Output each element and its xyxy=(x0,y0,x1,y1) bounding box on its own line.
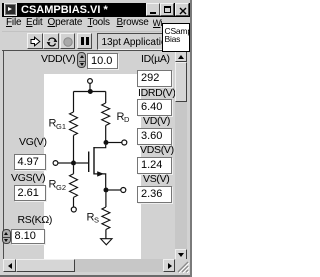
resistor RG1 xyxy=(70,112,78,135)
wire drain node to VD terminal xyxy=(109,142,122,144)
VI icon box (top-right) xyxy=(162,23,190,52)
wire left branch upper xyxy=(73,92,75,113)
wire RG2 to bottom terminal xyxy=(73,197,75,207)
wire top rail xyxy=(74,91,106,93)
resistor RS xyxy=(102,207,110,230)
ground xyxy=(101,239,112,245)
transistor Q1 channel xyxy=(93,147,95,175)
title bar xyxy=(2,3,190,17)
toolbar buttons xyxy=(27,33,43,49)
resistor RD xyxy=(102,103,110,126)
node drain junction xyxy=(104,140,109,145)
value label RG1 xyxy=(49,118,67,132)
panel sunken left edge xyxy=(3,50,5,259)
ground terminal circle (RG2 bottom) xyxy=(71,207,76,212)
value label RD xyxy=(117,111,131,124)
window outer dark edges xyxy=(0,275,192,277)
resistor RG2 xyxy=(70,174,78,198)
title icon xyxy=(4,3,17,16)
white schematic area xyxy=(44,74,141,259)
VDD spinner xyxy=(77,52,86,68)
svg-text:G1: G1 xyxy=(56,122,66,131)
corner resize grip xyxy=(175,259,189,273)
wire RG1 to gate node xyxy=(73,135,75,161)
node source junction xyxy=(104,188,109,193)
svg-text:D: D xyxy=(124,115,130,124)
font ring xyxy=(97,33,163,50)
VDD numeric box xyxy=(87,53,118,69)
value label RS xyxy=(87,212,100,225)
wire gate xyxy=(76,162,88,164)
wire VG terminal to gate node xyxy=(58,162,74,164)
svg-text:S: S xyxy=(94,216,99,225)
left column xyxy=(19,136,47,148)
transistor Q1 drain lead xyxy=(94,145,106,148)
menu bar bottom groove xyxy=(2,31,189,32)
transistor Q1 source lead xyxy=(94,174,106,188)
toolbar separator xyxy=(2,50,188,51)
svg-text:G2: G2 xyxy=(56,183,66,192)
right column labels/indicators xyxy=(141,53,170,65)
vertical scrollbar xyxy=(175,51,187,260)
wire left branch lower xyxy=(73,166,75,174)
circuit schematic SVG xyxy=(0,0,192,277)
menu bar xyxy=(6,17,21,29)
node VDD junction xyxy=(88,89,93,94)
wire RD to drain node xyxy=(105,126,107,143)
transistor Q1 gate plate xyxy=(88,152,90,173)
wire VDD terminal to rail xyxy=(89,84,91,91)
horizontal scrollbar xyxy=(3,259,175,272)
VDD(V) label xyxy=(41,53,75,65)
VS terminal circle xyxy=(121,188,126,193)
VD terminal circle xyxy=(122,140,127,145)
wire right branch upper xyxy=(105,92,107,104)
caption buttons xyxy=(146,3,160,16)
wire source node to RS xyxy=(105,193,107,208)
transistor Q1 source arrow xyxy=(97,171,104,176)
wire RS to ground xyxy=(105,230,107,239)
wire source node to VS terminal xyxy=(109,189,121,191)
VG terminal circle xyxy=(53,161,58,166)
node gate junction xyxy=(71,161,76,166)
value label RG2 xyxy=(49,179,67,193)
VDD terminal circle xyxy=(88,79,93,84)
